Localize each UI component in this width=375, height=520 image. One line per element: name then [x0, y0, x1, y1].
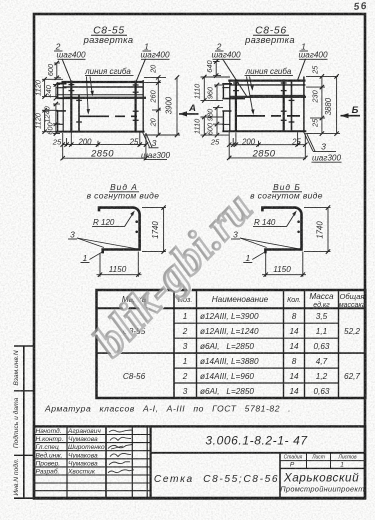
bar cross-section dots: [135, 220, 138, 223]
svg-text:14: 14: [289, 327, 299, 336]
svg-text:Провер.: Провер.: [36, 461, 61, 468]
svg-text:Р: Р: [290, 462, 295, 469]
svg-text:Чумакова: Чумакова: [68, 452, 98, 459]
dim 1110 upper line: [203, 77, 205, 100]
svg-text:ø12АIII, L=1240: ø12АIII, L=1240: [200, 327, 259, 336]
rotated dims right: [149, 64, 174, 128]
title block main divider: [150, 426, 152, 498]
title Вид Б: [250, 182, 323, 200]
svg-text:3880: 3880: [324, 97, 333, 115]
rotated dims right: [311, 65, 334, 128]
vertical: name/stadia table: [279, 453, 281, 499]
mesh C8-55 left edge: [62, 81, 64, 132]
title block outline: [34, 426, 365, 498]
svg-text:3: 3: [183, 387, 188, 396]
svg-text:1150: 1150: [273, 265, 291, 274]
left stub upper (bent tail): [222, 83, 232, 85]
svg-text:шаг300: шаг300: [312, 153, 341, 162]
svg-text:25: 25: [210, 138, 220, 147]
svg-text:1240: 1240: [43, 105, 52, 122]
fold line arrows: [90, 77, 92, 93]
svg-text:1: 1: [245, 253, 250, 263]
left stub lower (bent tail): [222, 110, 231, 112]
rotated dims left: [193, 60, 215, 136]
dim 1150: [97, 252, 142, 277]
svg-text:Взам.инв.N: Взам.инв.N: [13, 350, 20, 385]
svg-text:240: 240: [44, 84, 53, 98]
svg-text:Листов: Листов: [337, 455, 357, 461]
svg-text:Наименование: Наименование: [212, 295, 269, 304]
svg-text:3: 3: [183, 342, 188, 351]
mesh C8-56 bottom bar: [228, 130, 306, 132]
right chain dim 25/230/25: [321, 76, 323, 133]
svg-text:Общая: Общая: [339, 292, 364, 301]
svg-text:шаг400: шаг400: [211, 51, 240, 60]
svg-text:С8-56: С8-56: [123, 372, 146, 381]
svg-text:56: 56: [353, 1, 368, 13]
mesh C8-55 bar 2: [63, 86, 144, 88]
left attribute bottom cap: [14, 497, 34, 499]
svg-text:1: 1: [183, 357, 188, 366]
section arrow A: [179, 103, 199, 117]
dim 980 line: [216, 108, 218, 125]
svg-text:Чумакова: Чумакова: [68, 461, 98, 468]
svg-text:0,63: 0,63: [314, 387, 330, 396]
mesh C8-56 top bar pos1: [228, 79, 305, 81]
title Вид А: [87, 182, 160, 200]
bottom chain 25/200/25: [229, 144, 305, 146]
svg-text:Сетка С8-55;С8-56: Сетка С8-55;С8-56: [154, 474, 279, 485]
bottom chain 25/200/25: [63, 144, 146, 146]
left stub upper (bent tail): [57, 83, 67, 85]
svg-text:Инв.N подл.: Инв.N подл.: [12, 458, 20, 495]
dim 3880 line: [336, 76, 338, 133]
svg-text:А: А: [188, 103, 196, 114]
svg-text:25: 25: [311, 118, 320, 128]
mesh C8-56 vertical bar mid pos1: [283, 79, 285, 132]
radius leader arrow: [287, 214, 295, 227]
bottom dim 2850: [63, 157, 146, 159]
svg-text:Арматура классов А-I, А-III по: Арматура классов А-I, А-III по ГОСТ 5781…: [44, 404, 291, 414]
svg-text:8: 8: [292, 312, 297, 321]
svg-text:25: 25: [311, 65, 320, 75]
svg-text:ø12АIII, L=3900: ø12АIII, L=3900: [200, 312, 259, 321]
rotated dims left: [34, 63, 55, 135]
table header bottom line: [97, 307, 366, 309]
bottom dim 2850: [229, 157, 305, 159]
title block vertical: date col: [146, 426, 148, 498]
svg-text:Кол.: Кол.: [287, 297, 301, 304]
svg-text:ø14АIII, L=960: ø14АIII, L=960: [200, 372, 254, 381]
svg-text:шаг300: шаг300: [141, 151, 170, 160]
mesh C8-56 vertical bar right: [291, 80, 293, 132]
mesh C8-56 vertical bar left pos2: [235, 79, 237, 132]
mesh C8-56 left edge: [229, 80, 231, 132]
stadia header underline: [280, 460, 365, 462]
svg-text:640: 640: [205, 60, 214, 73]
stadia col line 1: [306, 453, 308, 469]
row line 4: [174, 367, 339, 369]
svg-text:Разраб.: Разраб.: [36, 468, 60, 476]
stadia header: [284, 455, 357, 461]
leader pos3: [303, 131, 313, 151]
dim 1740: [142, 208, 166, 252]
labels C8-56: [193, 26, 342, 163]
svg-text:линия сгиба: линия сгиба: [84, 67, 131, 76]
stamp labels: [36, 427, 64, 476]
svg-text:1150: 1150: [109, 265, 127, 274]
title block vertical: names/signatures: [105, 426, 107, 498]
svg-text:200: 200: [241, 138, 256, 147]
table column line Марка/Поз: [173, 290, 175, 398]
svg-text:3900: 3900: [165, 96, 174, 114]
svg-text:14: 14: [289, 342, 299, 351]
svg-text:1120: 1120: [34, 112, 43, 129]
specification table outline: [97, 290, 366, 398]
stadia values underline: [280, 467, 365, 469]
leader pos2: [223, 59, 248, 98]
dim ticks C8-55: [42, 61, 179, 161]
leader pos3: [142, 131, 149, 147]
svg-text:1: 1: [83, 253, 88, 263]
svg-text:230: 230: [311, 89, 320, 103]
dim 600 lower line: [55, 124, 57, 134]
svg-text:1,1: 1,1: [316, 327, 327, 336]
doc number cell bottom: [151, 452, 365, 454]
svg-text:2: 2: [182, 327, 188, 336]
left attribute divider 1: [14, 390, 34, 392]
left attribute divider 2: [14, 454, 34, 456]
svg-text:Широтенко: Широтенко: [68, 444, 105, 451]
svg-text:Масса: Масса: [309, 292, 334, 301]
svg-text:Гл.спец: Гл.спец: [36, 444, 59, 451]
mesh C8-56 right edge: [303, 77, 305, 133]
signatures squiggles: [108, 430, 134, 473]
bent bar profile A: [99, 208, 140, 254]
svg-text:Хвостик: Хвостик: [67, 469, 96, 476]
svg-text:200: 200: [77, 138, 92, 147]
svg-text:3,5: 3,5: [316, 312, 328, 321]
svg-text:600: 600: [46, 63, 55, 76]
left stub lower (bent tail): [57, 110, 67, 112]
dim 960 line: [216, 85, 218, 100]
left attribute column vertical line: [23, 346, 25, 499]
svg-text:развертка: развертка: [244, 34, 295, 45]
svg-text:1740: 1740: [151, 221, 160, 239]
radius leader arrow: [125, 214, 133, 227]
row line 2: [174, 337, 339, 339]
svg-text:шаг400: шаг400: [298, 51, 327, 60]
svg-text:ø6АI, L=2850: ø6АI, L=2850: [200, 342, 254, 351]
stamp names: [67, 428, 105, 476]
stamp row lines (left part): [34, 434, 151, 436]
svg-text:Б: Б: [352, 105, 359, 116]
svg-text:25: 25: [129, 138, 139, 147]
row line 1: [197, 322, 339, 324]
svg-text:Чумакова: Чумакова: [68, 436, 98, 443]
dim 1110 lower line: [203, 117, 205, 135]
svg-text:Вед.инж.: Вед.инж.: [36, 451, 63, 459]
names column: [200, 312, 259, 396]
svg-text:600: 600: [205, 122, 214, 135]
svg-text:ø6АI, L=2850: ø6АI, L=2850: [200, 387, 254, 396]
mesh C8-55 fold bar thick: [63, 97, 146, 99]
svg-text:шаг400: шаг400: [56, 51, 85, 60]
mesh C8-56 dashed middle bar: [237, 115, 300, 117]
svg-text:0,63: 0,63: [314, 342, 330, 351]
svg-text:1,2: 1,2: [316, 372, 328, 381]
svg-text:1740: 1740: [315, 221, 324, 239]
dim 1150: [262, 252, 306, 277]
svg-text:600: 600: [46, 122, 55, 135]
dim ticks C8-56: [202, 59, 339, 160]
svg-text:25: 25: [52, 138, 62, 147]
svg-text:Агранович: Агранович: [67, 428, 101, 435]
table column line Поз/Наименование: [196, 290, 198, 398]
leader pos2: [62, 59, 72, 82]
mesh C8-55 right edge: [142, 80, 144, 132]
leaders C8-56: [223, 59, 316, 151]
svg-text:2850: 2850: [90, 148, 114, 159]
svg-text:Лист: Лист: [311, 455, 325, 461]
dimension lines C8-55: [42, 63, 180, 160]
svg-text:линия сгиба: линия сгиба: [245, 67, 292, 76]
svg-text:ø14АIII, L=3880: ø14АIII, L=3880: [200, 357, 259, 366]
mesh C8-56 fold line thin: [250, 94, 305, 96]
dim 1120 upper line: [44, 79, 46, 96]
section arrow Б: [341, 105, 361, 118]
labels C8-55: [34, 26, 174, 160]
mesh C8-56 bar 2: [230, 84, 306, 86]
mesh C8-55 bottom bar: [62, 131, 145, 133]
dim 600 lower line: [216, 124, 218, 135]
svg-text:1110: 1110: [193, 118, 202, 134]
svg-text:развертка: развертка: [83, 34, 134, 45]
svg-text:3: 3: [321, 142, 326, 152]
svg-text:25: 25: [291, 138, 301, 147]
svg-text:960: 960: [205, 86, 214, 99]
svg-text:20: 20: [149, 64, 158, 74]
svg-text:1: 1: [340, 462, 344, 469]
svg-text:2: 2: [182, 372, 188, 381]
dim 600 upper line: [56, 63, 58, 78]
bent bar profile Б: [262, 208, 301, 254]
watermark blik.kgbi.ru: [79, 178, 268, 371]
svg-text:Промстройниипроект: Промстройниипроект: [280, 484, 364, 493]
svg-text:260: 260: [149, 89, 158, 103]
svg-text:R 120: R 120: [93, 218, 115, 227]
left attribute column top cap: [14, 345, 34, 347]
dim 1120 lower line: [44, 110, 46, 131]
bar cross-section dots: [297, 220, 300, 223]
svg-text:14: 14: [289, 387, 299, 396]
table column line Масса/Общая: [338, 290, 340, 398]
svg-text:1110: 1110: [193, 83, 202, 99]
svg-text:1: 1: [183, 312, 188, 321]
mesh C8-55 vertical bar right pos1: [135, 81, 137, 133]
leader pos1: [136, 59, 146, 82]
mesh C8-56 fold bar thick: [230, 96, 306, 98]
leaders C8-55: [62, 59, 152, 148]
table column line Наименование/Кол: [283, 290, 285, 398]
dim 1240 line: [55, 104, 57, 124]
extension verticals bottom: [62, 133, 64, 160]
svg-text:шаг400: шаг400: [140, 51, 169, 60]
row line 3 (marka group separator): [97, 352, 366, 354]
mesh C8-55 vertical bar partial: [78, 95, 80, 132]
cross ticks on bars: [69, 85, 139, 122]
dim 240 line: [55, 85, 57, 99]
title block vertical: labels/names: [66, 426, 68, 498]
svg-text:52,2: 52,2: [344, 327, 360, 336]
svg-text:8: 8: [292, 357, 297, 366]
right chain dim line 20/260/20: [157, 77, 159, 135]
svg-text:4,7: 4,7: [316, 357, 328, 366]
svg-text:14: 14: [289, 372, 299, 381]
svg-text:20: 20: [149, 117, 158, 127]
svg-text:62,7: 62,7: [344, 372, 360, 381]
cross ticks on bars: [233, 83, 294, 122]
dim 640 line: [215, 62, 217, 76]
svg-text:Харьковский: Харьковский: [283, 471, 359, 485]
svg-text:ед.кг: ед.кг: [313, 301, 330, 309]
svg-text:980: 980: [205, 108, 214, 121]
row line 5: [174, 382, 339, 384]
extension verticals bottom: [228, 132, 230, 159]
svg-text:3: 3: [70, 230, 75, 240]
mesh C8-55 vertical bar left pos2: [70, 81, 72, 133]
dim 3900 line: [176, 77, 178, 135]
mesh C8-55 fold line thin: [57, 94, 144, 96]
svg-text:Н.контр.: Н.контр.: [36, 436, 64, 443]
mesh C8-55 dashed middle bar: [79, 115, 137, 117]
dim 1740: [304, 208, 331, 252]
svg-text:Подпись и дата: Подпись и дата: [12, 397, 20, 448]
svg-text:Стадия: Стадия: [284, 455, 303, 461]
svg-text:3: 3: [152, 138, 157, 148]
mesh C8-55 top bar pos1: [62, 81, 144, 83]
svg-text:1120: 1120: [34, 79, 43, 96]
svg-text:массакг: массакг: [339, 302, 366, 309]
fold line arrows: [250, 77, 252, 87]
svg-text:Начотд.: Начотд.: [36, 427, 62, 435]
table column line Кол/Масса: [304, 290, 306, 398]
stadia col line 2: [330, 453, 332, 469]
svg-text:2850: 2850: [252, 148, 276, 159]
leader pos1: [298, 59, 306, 81]
svg-text:3.006.1-8.2-1- 47: 3.006.1-8.2-1- 47: [205, 434, 308, 448]
dimension lines C8-56: [201, 62, 341, 160]
title block vertical: signatures/date: [131, 426, 133, 498]
